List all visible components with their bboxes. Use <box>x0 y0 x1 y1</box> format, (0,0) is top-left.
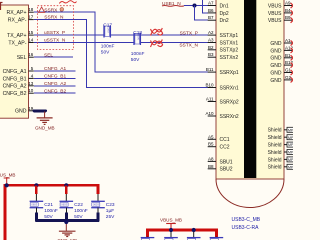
power wire VBUS_MB bus <box>5 185 98 240</box>
pin SEL (16) <box>17 52 34 61</box>
svg-text:TX_AP+: TX_AP+ <box>7 33 26 39</box>
capacitor C23 <box>91 194 115 220</box>
svg-text:A5: A5 <box>208 134 214 139</box>
pin A3 SSTXn1 <box>208 38 239 47</box>
wire SEL <box>34 56 73 58</box>
wire junction to Dn2 <box>195 6 209 21</box>
svg-text:18: 18 <box>28 7 34 12</box>
svg-text:GND: GND <box>15 109 27 115</box>
capacitor C27 (cut) <box>210 237 224 240</box>
wire SSRX_N <box>34 20 208 88</box>
svg-text:SSTXp2: SSTXp2 <box>220 48 239 54</box>
pin RX_AP+ (18) <box>6 7 33 16</box>
svg-text:SEL: SEL <box>17 55 27 61</box>
wire SSTX_P right <box>111 34 208 36</box>
ground GND_MB (left component) <box>35 112 55 131</box>
svg-text:SSTXn1: SSTXn1 <box>220 40 239 46</box>
connector plug black bar <box>244 0 256 178</box>
junction C21 <box>34 183 38 187</box>
svg-text:100nF: 100nF <box>44 208 58 214</box>
svg-text:14: 14 <box>28 38 34 43</box>
blanket dashed red box <box>38 6 74 50</box>
capacitor C21 <box>30 194 58 220</box>
svg-text:B6: B6 <box>208 8 214 13</box>
svg-text:CNFG_A1: CNFG_A1 <box>3 69 27 75</box>
wire corner fragment top-left <box>0 3 3 11</box>
error triangle marker <box>39 7 45 12</box>
wire USB1_P to Dp2 <box>203 0 209 13</box>
svg-text:C17: C17 <box>103 23 112 29</box>
svg-text:VBUS: VBUS <box>268 18 282 24</box>
svg-text:RX_AP-: RX_AP- <box>8 18 27 24</box>
power stub C22 <box>65 185 67 194</box>
pin B7 Dn2 <box>208 15 229 24</box>
ground rail thick <box>35 208 37 213</box>
pin A7 Dn1 <box>208 1 229 10</box>
svg-text:SSRXp1: SSRXp1 <box>220 70 239 76</box>
svg-text:B7: B7 <box>208 15 214 20</box>
svg-text:B5: B5 <box>208 142 214 147</box>
svg-text:Shield: Shield <box>268 143 282 149</box>
svg-text:0603: 0603 <box>61 203 67 207</box>
svg-text:0603: 0603 <box>31 203 37 207</box>
pin A8 SBU1 <box>208 156 233 165</box>
junction bottom bus 1 <box>169 228 173 232</box>
svg-text:Shield: Shield <box>268 157 282 163</box>
svg-text:B1: B1 <box>285 53 291 58</box>
svg-text:10: 10 <box>28 88 34 93</box>
svg-text:Dp2: Dp2 <box>220 11 229 17</box>
svg-text:USB3-C-RA: USB3-C-RA <box>232 225 260 231</box>
pin B6 Dp2 <box>208 8 229 17</box>
component U_left body <box>0 5 29 118</box>
svg-text:100nF: 100nF <box>131 51 145 57</box>
svg-text:VBUS_MB: VBUS_MB <box>160 218 182 223</box>
wire CNFG_A1 <box>34 70 76 72</box>
no-ERC marker on SSTX_N <box>151 40 163 48</box>
wire uSSTX_N left <box>34 42 134 44</box>
wire USB1_N to Dn1 <box>184 5 208 7</box>
svg-text:A10: A10 <box>205 111 214 116</box>
svg-text:SSRXn2: SSRXn2 <box>220 114 239 120</box>
svg-text:0603: 0603 <box>93 203 99 207</box>
svg-text:MP: MP <box>288 151 293 155</box>
svg-text:GND: GND <box>270 63 282 69</box>
svg-text:SSTX_P: SSTX_P <box>180 30 198 36</box>
svg-text:25V: 25V <box>106 214 115 220</box>
svg-text:SBU1: SBU1 <box>220 159 233 165</box>
red squiggle top <box>59 1 76 4</box>
svg-text:A1: A1 <box>285 38 291 43</box>
svg-text:VBUS_MB: VBUS_MB <box>0 173 16 178</box>
svg-text:MP: MP <box>288 136 293 140</box>
junction ground rail <box>64 220 68 224</box>
pin A11 SSRXp2 <box>206 97 239 106</box>
pin B5 CC2 <box>208 142 230 151</box>
svg-text:C18: C18 <box>133 30 142 36</box>
svg-text:15: 15 <box>28 30 34 35</box>
svg-text:Dn1: Dn1 <box>220 3 229 9</box>
svg-text:CC2: CC2 <box>220 145 230 151</box>
svg-text:16: 16 <box>28 52 34 57</box>
svg-text:13: 13 <box>28 81 34 86</box>
svg-text:A7: A7 <box>208 1 214 6</box>
svg-text:B9: B9 <box>285 15 291 20</box>
svg-text:50V: 50V <box>101 49 110 55</box>
svg-text:SSRXp2: SSRXp2 <box>220 99 239 105</box>
svg-text:CNFG_B2: CNFG_B2 <box>3 91 27 97</box>
connector J-USB body <box>216 0 284 208</box>
wire CNFG_A2 <box>34 85 76 87</box>
svg-text:GND: GND <box>270 78 282 84</box>
svg-text:GND_MB: GND_MB <box>35 126 55 131</box>
svg-text:MP: MP <box>288 143 293 147</box>
junction C22 <box>64 183 68 187</box>
svg-text:17: 17 <box>28 15 34 20</box>
svg-text:TX_AP-: TX_AP- <box>8 40 26 46</box>
wire GND thick <box>34 109 46 112</box>
svg-text:100nF: 100nF <box>74 208 88 214</box>
wire SSTX_N right <box>141 42 208 44</box>
svg-text:GND: GND <box>270 56 282 62</box>
svg-text:MP: MP <box>288 165 293 169</box>
svg-text:Shield: Shield <box>268 128 282 134</box>
svg-text:CC1: CC1 <box>220 137 230 143</box>
svg-text:Shield: Shield <box>268 165 282 171</box>
svg-text:A9: A9 <box>285 1 291 6</box>
capacitor C25 (cut) <box>164 232 178 240</box>
svg-text:GND: GND <box>270 70 282 76</box>
svg-text:1µF: 1µF <box>106 208 114 214</box>
svg-text:B2: B2 <box>208 45 214 50</box>
svg-text:B8: B8 <box>208 164 214 169</box>
svg-text:C21: C21 <box>44 202 53 208</box>
small pink marker dot <box>60 8 64 12</box>
power port VBUS_MB (left) <box>0 173 16 185</box>
junction VBUS_MB left <box>5 183 9 187</box>
svg-text:C23: C23 <box>106 202 115 208</box>
pin GND (19) <box>15 106 35 115</box>
svg-text:USB3-C_MB: USB3-C_MB <box>232 217 261 223</box>
svg-text:Dn2: Dn2 <box>220 18 229 24</box>
pin B11 SSRXp1 <box>206 67 239 76</box>
wire CNFG_B2 <box>34 92 76 94</box>
svg-text:GND: GND <box>270 41 282 47</box>
pin RX_AP- (17) <box>8 15 34 24</box>
capacitor C22 <box>60 194 88 220</box>
pin CNFG_A2 (13) <box>3 81 34 90</box>
junction bottom bus 2 <box>192 228 196 232</box>
wire uSSTX_P left <box>34 34 104 36</box>
right pins GND x6 <box>270 38 295 47</box>
pin A10 SSRXn2 <box>205 111 238 120</box>
no-ERC marker on SSTX_P <box>151 28 163 36</box>
svg-text:SSTXn2: SSTXn2 <box>220 55 239 61</box>
svg-text:SSRXn1: SSRXn1 <box>220 85 239 91</box>
svg-text:VBUS: VBUS <box>268 11 282 17</box>
svg-text:Shield: Shield <box>268 150 282 156</box>
svg-text:MP: MP <box>288 128 293 132</box>
svg-text:MP: MP <box>288 158 293 162</box>
svg-text:RX_AP+: RX_AP+ <box>6 10 26 16</box>
pin B2 SSTXp2 <box>208 45 239 54</box>
wire CNFG_B1 <box>34 77 76 79</box>
capacitor C18 <box>131 30 145 63</box>
power port VBUS_MB (bottom) <box>160 218 182 229</box>
svg-text:CNFG_B1: CNFG_B1 <box>3 76 27 82</box>
capacitor C24 (cut) <box>141 237 155 240</box>
svg-text:100nF: 100nF <box>101 43 115 49</box>
svg-text:SSTX_N: SSTX_N <box>179 43 198 49</box>
wire SSRX_P <box>34 12 208 72</box>
pin CNFG_B2 (10) <box>3 88 34 97</box>
pin A5 CC1 <box>208 134 230 143</box>
svg-text:A3: A3 <box>208 38 214 43</box>
ground GND_MB (cap bank) <box>57 224 77 240</box>
capacitor C26 (cut) <box>187 232 201 240</box>
svg-text:A2: A2 <box>208 30 214 35</box>
pin TX_AP- (14) <box>8 38 33 47</box>
svg-text:B10: B10 <box>205 83 214 88</box>
svg-text:GND: GND <box>270 48 282 54</box>
svg-text:A11: A11 <box>206 97 214 102</box>
pin TX_AP+ (15) <box>7 30 34 39</box>
pin B10 SSRXn1 <box>205 83 238 92</box>
svg-text:A8: A8 <box>208 156 214 161</box>
pin A2 SSTXp1 <box>208 30 239 39</box>
svg-text:CNFG_A2: CNFG_A2 <box>3 84 27 90</box>
svg-text:B11: B11 <box>206 67 214 72</box>
svg-text:SSTXp1: SSTXp1 <box>220 33 239 39</box>
pin B3 SSTXn2 <box>208 52 239 61</box>
svg-text:VBUS: VBUS <box>268 3 282 9</box>
svg-text:B4: B4 <box>285 8 291 13</box>
svg-text:SBU2: SBU2 <box>220 167 233 173</box>
right pins Shield x6 <box>268 127 295 133</box>
svg-text:C22: C22 <box>74 202 83 208</box>
power stub C21 <box>35 185 37 194</box>
junction USB1_N <box>193 4 197 8</box>
pin CNFG_A1 (5) <box>3 66 34 75</box>
svg-text:50V: 50V <box>131 57 140 63</box>
svg-text:B3: B3 <box>208 52 214 57</box>
squiggle under USB1_N <box>162 5 184 8</box>
pin CNFG_B1 (4) <box>3 73 34 82</box>
right pins VBUS <box>268 1 296 10</box>
capacitor C17 <box>101 23 115 56</box>
power wire VBUS_MB bottom bus <box>148 230 217 237</box>
svg-text:Shield: Shield <box>268 135 282 141</box>
pin B8 SBU2 <box>208 164 233 173</box>
